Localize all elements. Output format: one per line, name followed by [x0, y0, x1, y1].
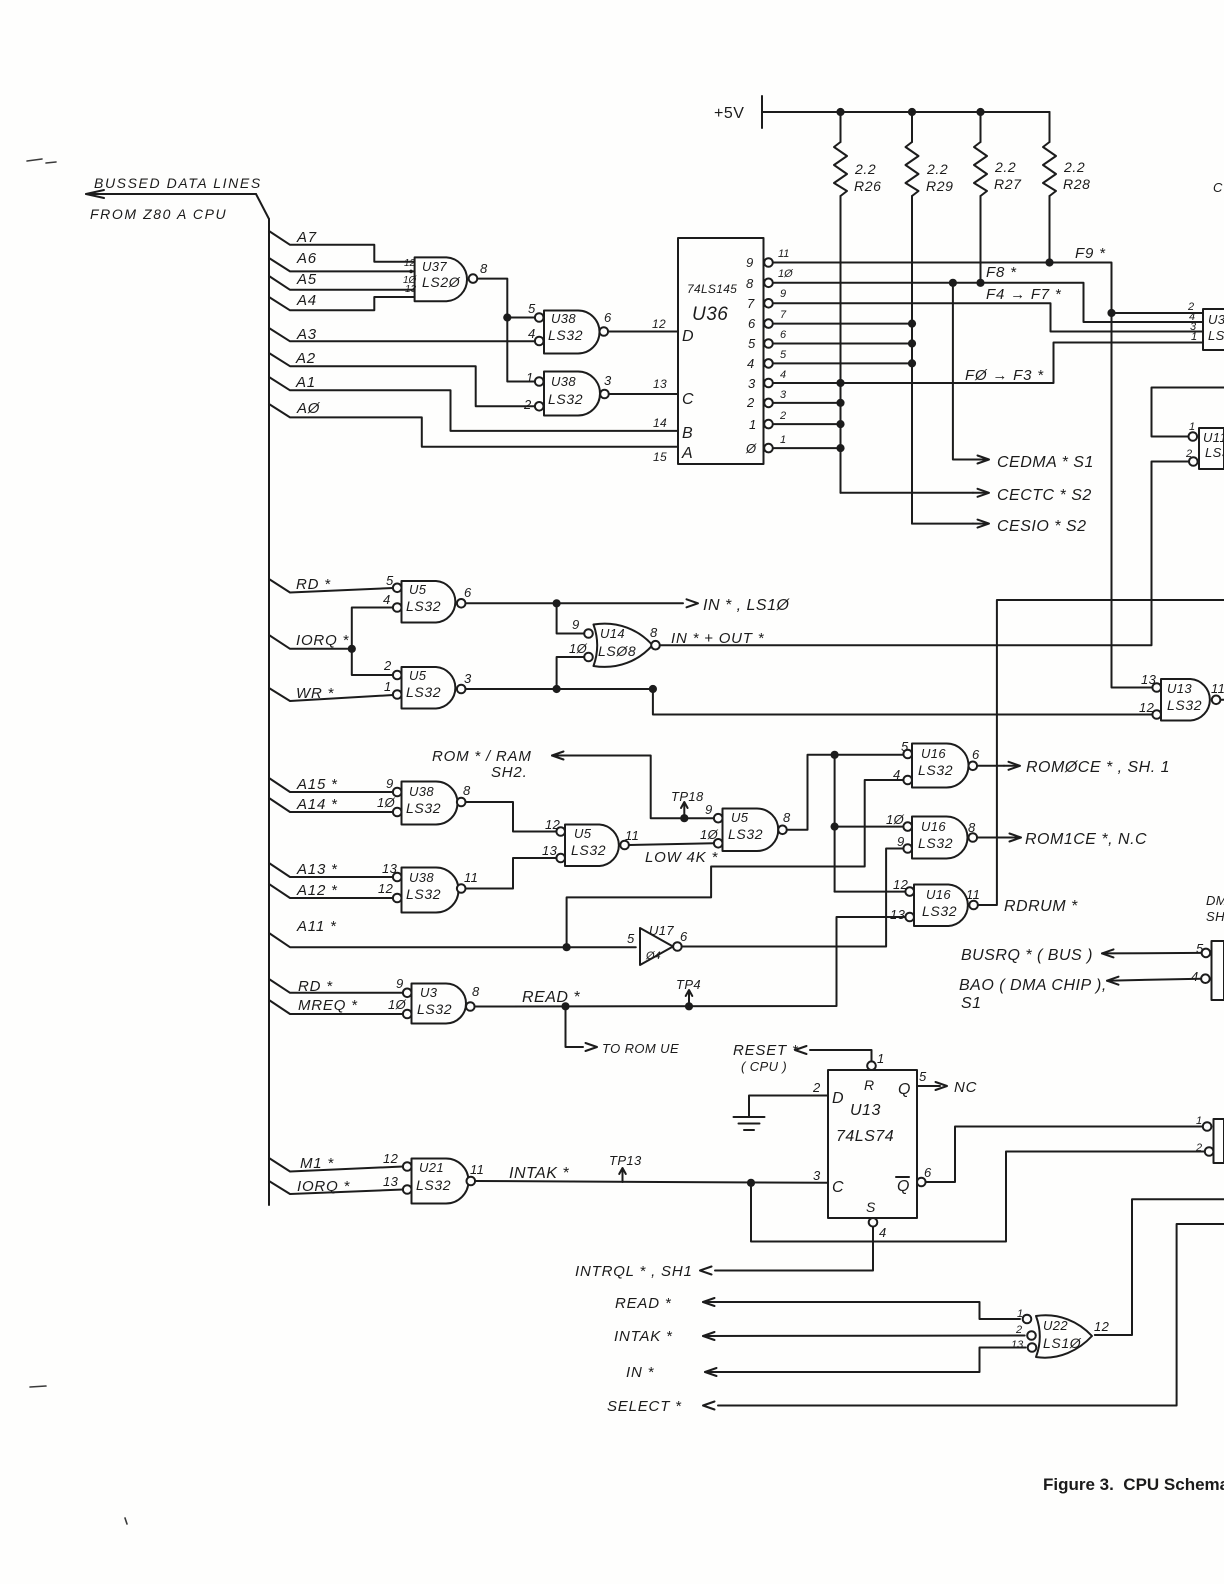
svg-text:74LS74: 74LS74 — [836, 1128, 894, 1145]
pin 5 bubble — [1202, 949, 1211, 958]
node SELECT arrow — [703, 1402, 715, 1410]
svg-text:A7: A7 — [296, 229, 317, 246]
svg-text:6: 6 — [680, 929, 688, 944]
svg-text:ROM * / RAM: ROM * / RAM — [432, 748, 532, 765]
svg-text:INTAK *: INTAK * — [509, 1165, 569, 1182]
node junction on ROM0CE pin5 feed — [831, 751, 839, 759]
wire RD into U5a — [269, 579, 393, 593]
wire CEDMA branch from F8 — [953, 283, 973, 460]
node INTRQL arrow and label — [575, 1263, 712, 1280]
svg-text:R28: R28 — [1063, 176, 1090, 192]
svg-text:5: 5 — [528, 301, 536, 316]
svg-text:D: D — [832, 1090, 844, 1107]
svg-text:8: 8 — [463, 783, 471, 798]
svg-text:13: 13 — [890, 907, 906, 922]
svg-text:7: 7 — [747, 296, 755, 311]
pin 5 bubble — [393, 584, 402, 593]
svg-text:5: 5 — [627, 931, 635, 946]
wire SELECT from right edge — [718, 1224, 1224, 1406]
svg-text:9: 9 — [386, 776, 394, 791]
gate U37 LS20 — [403, 257, 467, 301]
svg-text:LS32: LS32 — [728, 826, 763, 842]
resistor R28 2.2 — [1043, 112, 1090, 196]
svg-text:1: 1 — [780, 434, 786, 446]
wire D pin to ground — [749, 1096, 828, 1118]
gate U13 LS32 (top right) — [1139, 672, 1224, 721]
svg-text:S1: S1 — [961, 995, 982, 1012]
svg-text:11: 11 — [470, 1162, 484, 1177]
wire A12 — [269, 884, 393, 898]
wire F8 from U36 pin 10 — [773, 283, 1203, 322]
pin 2 bubble — [393, 671, 402, 680]
svg-text:LS32: LS32 — [406, 800, 441, 816]
svg-text:1: 1 — [1196, 1115, 1202, 1127]
wire U38 (A15) output to U5mid pin 12 — [466, 802, 557, 832]
wire IN*+OUT* long run — [660, 462, 1189, 646]
svg-text:1: 1 — [526, 370, 534, 385]
svg-text:TP4: TP4 — [676, 977, 701, 992]
svg-text:D: D — [682, 328, 694, 345]
svg-text:8: 8 — [472, 984, 480, 999]
wire CECTC from R26 column — [841, 492, 974, 494]
svg-text:U16: U16 — [921, 819, 946, 834]
svg-text:2: 2 — [779, 410, 786, 422]
svg-text:U3: U3 — [420, 985, 438, 1000]
svg-text:5: 5 — [748, 336, 756, 351]
wire to ROM UE arrow — [566, 1006, 680, 1056]
svg-text:9: 9 — [705, 802, 713, 817]
svg-text:2: 2 — [523, 397, 532, 412]
wire A6 — [269, 258, 415, 271]
wire Qbar to right edge gate pin 1 — [926, 1127, 1203, 1183]
svg-text:R27: R27 — [994, 176, 1022, 192]
node ROM0CE arrow and label — [1004, 759, 1170, 776]
svg-text:A6: A6 — [296, 250, 317, 267]
wire IN*,LS10 from U5a output — [466, 602, 684, 604]
svg-text:6: 6 — [748, 316, 756, 331]
wire U36 pin 6 to R29 column — [773, 343, 912, 345]
pin 4 bubble — [1201, 974, 1210, 983]
svg-text:U16: U16 — [921, 746, 946, 761]
svg-text:LS3: LS3 — [1205, 445, 1224, 460]
svg-text:AØ: AØ — [296, 400, 321, 417]
pin 11 output bubble — [620, 841, 629, 850]
svg-text:2: 2 — [1015, 1324, 1022, 1336]
pin 1 bubble of U22 — [1023, 1315, 1032, 1324]
wire +5V rail — [762, 111, 1050, 113]
svg-text:A: A — [681, 445, 693, 462]
node U37 output branch junction — [503, 313, 511, 321]
svg-text:6: 6 — [972, 747, 980, 762]
svg-text:4: 4 — [383, 592, 391, 607]
pin 11 output bubble — [467, 1177, 476, 1186]
svg-text:BUSRQ * ( BUS ): BUSRQ * ( BUS ) — [961, 947, 1093, 964]
resistor R27 2.2 — [974, 112, 1022, 196]
pin 9 bubble — [714, 814, 723, 823]
svg-text:IN *: IN * — [626, 1364, 655, 1381]
svg-text:ROM1CE *, N.C: ROM1CE *, N.C — [1025, 831, 1147, 848]
pin 9 bubble — [393, 788, 402, 797]
wire WR into U5b — [269, 688, 393, 701]
svg-text:11: 11 — [1211, 681, 1224, 696]
pin 9 bubble — [903, 844, 912, 853]
pin 4 bubble — [903, 776, 912, 785]
svg-text:LS32: LS32 — [416, 1177, 451, 1193]
svg-text:9: 9 — [746, 255, 754, 270]
svg-text:9: 9 — [396, 976, 404, 991]
svg-text:CESIO * S2: CESIO * S2 — [997, 518, 1086, 535]
svg-text:SH: SH — [1206, 909, 1224, 924]
ground — [734, 1117, 765, 1130]
node BUSRQ arrow and label — [961, 947, 1202, 964]
pin 2 bubble (output 1) — [764, 420, 773, 429]
svg-text:U14: U14 — [600, 626, 625, 641]
gate U22 LS10 — [1011, 1308, 1110, 1358]
pin 12 bubble — [403, 1162, 412, 1171]
wire A1 — [269, 377, 678, 431]
gate U38 LS32 (C input) — [523, 370, 612, 416]
pin 2 bubble of U11 — [1189, 457, 1198, 466]
svg-text:U36: U36 — [692, 304, 728, 325]
gate U1x (right edge, cut, Qbar/INTAK) — [1195, 1115, 1224, 1163]
node junction TO ROM UE — [561, 1002, 569, 1010]
pin 10 bubble of U14 — [584, 653, 593, 662]
node CESIO arrow — [973, 518, 1086, 535]
svg-text:A15 *: A15 * — [296, 776, 338, 793]
node INTAK branch junction — [747, 1179, 755, 1187]
pin 1 bubble (output 0) — [764, 444, 773, 453]
svg-text:1Ø: 1Ø — [388, 997, 407, 1012]
wire junction up to U14 pin 10 — [557, 657, 584, 689]
pin 8 output bubble — [466, 1002, 475, 1011]
svg-text:LS32: LS32 — [922, 903, 957, 919]
svg-text:F8 *: F8 * — [986, 264, 1017, 281]
svg-text:4: 4 — [879, 1225, 887, 1240]
svg-text:12: 12 — [404, 258, 416, 269]
svg-text:SH2.: SH2. — [491, 764, 528, 781]
node ROM/RAM label — [432, 748, 532, 781]
wire U37 output to U38 gates — [477, 279, 534, 382]
pin 6 bubble (Qbar) — [917, 1178, 926, 1187]
gate U38 LS32 (D input) — [528, 301, 612, 354]
wire R27 lower lead down to F8 row — [980, 196, 982, 283]
svg-text:IN * , LS1Ø: IN * , LS1Ø — [703, 597, 790, 614]
wire branch to U38a pin 5 — [507, 317, 535, 319]
svg-text:TP13: TP13 — [609, 1153, 642, 1168]
svg-text:1: 1 — [1189, 421, 1195, 433]
pin 6 output bubble — [969, 762, 978, 771]
wire A5 — [269, 276, 415, 290]
svg-text:2: 2 — [383, 658, 392, 673]
wire U11 pin 1 feed from right edge — [1152, 388, 1224, 437]
pin 12 bubble — [905, 887, 914, 896]
svg-text:LS32: LS32 — [548, 327, 583, 343]
svg-text:U3: U3 — [1208, 312, 1224, 327]
pin 5 bubble (output 4) — [764, 359, 773, 368]
svg-text:6: 6 — [464, 585, 472, 600]
node CECTC arrow — [973, 487, 1092, 504]
pin 3 output bubble — [457, 685, 466, 694]
gate U14 LS08 — [569, 617, 658, 667]
svg-text:8: 8 — [783, 810, 791, 825]
wire R26 lower lead down to F0-F3 row — [840, 196, 842, 493]
node junction R26 on +5V rail — [836, 108, 844, 116]
pin 10 bubble — [393, 808, 402, 817]
wire READ output long run — [475, 917, 905, 1007]
svg-text:( CPU ): ( CPU ) — [741, 1059, 787, 1074]
svg-text:4: 4 — [1191, 969, 1199, 984]
gate U3x (right edge, cut off) — [1187, 301, 1224, 350]
svg-text:5: 5 — [780, 349, 787, 361]
wire A15 — [269, 778, 393, 792]
svg-text:U38: U38 — [409, 870, 434, 885]
wire U36 pin 2 to R26 column — [773, 423, 841, 425]
pin 1 bubble — [393, 690, 402, 699]
wire U22 output run to right edge — [1095, 1199, 1224, 1335]
svg-text:LS32: LS32 — [406, 684, 441, 700]
svg-text:3: 3 — [748, 376, 756, 391]
svg-text:Q: Q — [897, 1178, 910, 1195]
svg-text:LS32: LS32 — [417, 1001, 452, 1017]
pin 1 bubble — [535, 377, 544, 386]
svg-text:FROM Z80 A CPU: FROM Z80 A CPU — [90, 206, 227, 222]
node junction pin6 row — [908, 339, 916, 347]
pin 3 bubble (output 2) — [764, 399, 773, 408]
wire IORQ — [269, 635, 352, 649]
gate U5 LS32 (RD+IORQ) — [383, 573, 472, 623]
svg-text:15: 15 — [653, 450, 667, 464]
svg-text:ROMØCE * , SH. 1: ROMØCE * , SH. 1 — [1026, 759, 1170, 776]
wire READ bottom to U22 pin 1 — [703, 1298, 1020, 1319]
svg-text:INTRQL * , SH1: INTRQL * , SH1 — [575, 1263, 693, 1280]
svg-text:6: 6 — [780, 329, 787, 341]
svg-text:TP18: TP18 — [671, 789, 704, 804]
svg-text:LS1Ø: LS1Ø — [1043, 1335, 1082, 1351]
svg-text:BAO ( DMA CHIP ),: BAO ( DMA CHIP ), — [959, 977, 1107, 994]
wire RD to U3 pin 9 — [269, 979, 403, 993]
wire bussed data lines arrow — [86, 190, 256, 198]
pin 9 bubble (output 7) — [764, 299, 773, 308]
svg-text:A12 *: A12 * — [296, 882, 338, 899]
svg-text:12: 12 — [378, 881, 394, 896]
pin 11 output bubble — [1212, 696, 1221, 705]
svg-text:U13: U13 — [1167, 681, 1192, 696]
gate U38 LS32 (A13/A12) — [378, 861, 478, 913]
wire ROM1CE output — [977, 837, 1005, 839]
svg-text:1Ø: 1Ø — [377, 795, 396, 810]
svg-text:4: 4 — [780, 369, 786, 381]
wire F4-F7 from U36 pin 9 — [773, 303, 1203, 331]
svg-text:A2: A2 — [295, 350, 316, 367]
wire junction down to U14 pin 9 — [557, 603, 584, 633]
gate U5 LS32 (TP18) — [700, 802, 791, 851]
svg-text:INTAK *: INTAK * — [614, 1328, 673, 1345]
svg-text:U21: U21 — [419, 1160, 444, 1175]
svg-text:TO ROM UE: TO ROM UE — [602, 1041, 679, 1056]
pin 6 bubble of U17 — [673, 942, 682, 951]
gate U16 LS32 (ROM0CE) — [893, 739, 980, 788]
wire U38 (A13) output to U5mid pin 13 — [466, 858, 557, 889]
node junction pin3 row — [836, 399, 844, 407]
svg-text:LS32: LS32 — [406, 886, 441, 902]
svg-text:CEDMA * S1: CEDMA * S1 — [997, 454, 1094, 471]
wire U5c output node run — [787, 755, 903, 830]
wire WR node long run to U13g pin 12 — [653, 689, 1152, 715]
gate U5 LS32 (IORQ+WR) — [383, 658, 472, 709]
wire F9 from U36 pin 11 — [773, 263, 1152, 688]
svg-text:A14 *: A14 * — [296, 796, 338, 813]
svg-text:8: 8 — [746, 276, 754, 291]
svg-text:5: 5 — [919, 1069, 927, 1084]
wire F9 branch to U3 pin 2 — [1112, 312, 1204, 314]
svg-text:IN * + OUT *: IN * + OUT * — [671, 630, 765, 647]
svg-text:Figure 3. CPU Schema: Figure 3. CPU Schema — [1043, 1475, 1224, 1494]
svg-text:F4 → F7 *: F4 → F7 * — [986, 286, 1062, 303]
gate U3 LS32 (READ) — [388, 976, 480, 1024]
svg-text:8: 8 — [650, 625, 658, 640]
svg-text:12: 12 — [383, 1151, 399, 1166]
svg-text:1Ø: 1Ø — [778, 268, 794, 280]
node R26 junction on F0-F3 row — [836, 379, 844, 387]
pin 12 bubble — [556, 827, 565, 836]
pin 11 output bubble — [457, 884, 466, 893]
pin 4 bubble — [535, 337, 544, 346]
svg-text:C: C — [682, 391, 694, 408]
svg-text:4: 4 — [747, 356, 755, 371]
svg-text:2: 2 — [746, 395, 755, 410]
svg-text:U22: U22 — [1043, 1318, 1068, 1333]
wire U5b output (write strobe) — [466, 688, 653, 690]
svg-text:6: 6 — [924, 1165, 932, 1180]
svg-text:U13: U13 — [850, 1102, 881, 1119]
svg-text:LS32: LS32 — [548, 391, 583, 407]
pin 2 bubble of U22 — [1027, 1331, 1036, 1340]
node junction pin2 row — [836, 420, 844, 428]
node A11 branch junction — [563, 943, 571, 951]
wire A11 branch up to U16a pin 4 — [567, 780, 903, 947]
svg-text:RDRUM *: RDRUM * — [1004, 898, 1078, 915]
node junction R29 on +5V rail — [908, 108, 916, 116]
svg-text:14: 14 — [653, 416, 667, 430]
pin 6 output bubble — [600, 327, 609, 336]
wire M1 to U21 pin 12 — [269, 1158, 403, 1172]
pin 11 bubble (output 9) — [764, 258, 773, 267]
resistor R29 2.2 — [906, 112, 954, 196]
svg-text:U5: U5 — [409, 668, 427, 683]
gate U5 LS32 (mid decode) — [542, 817, 639, 866]
svg-text:LS2Ø: LS2Ø — [422, 274, 461, 290]
svg-text:LSØ8: LSØ8 — [598, 643, 636, 659]
pin 13 bubble — [905, 913, 914, 922]
pin 5 bubble — [535, 313, 544, 322]
node TP4 — [676, 977, 701, 1010]
node junction on pin10 feed — [831, 823, 839, 831]
wire IN bottom to U22 pin 13 — [705, 1348, 1026, 1377]
pin 1 bubble of U11 — [1189, 432, 1198, 441]
wire INTAK from U21 to U13 pin C — [475, 1181, 828, 1183]
svg-text:READ *: READ * — [522, 989, 580, 1006]
pin 10 bubble — [903, 822, 912, 831]
wire R29 lower lead down to CECTC corner — [911, 196, 913, 524]
pin 13 bubble — [556, 854, 565, 863]
svg-text:C: C — [832, 1179, 844, 1196]
pin 8 bubble of U37 — [469, 274, 478, 283]
pin 12 bubble — [393, 894, 402, 903]
pin 6 bubble (output 5) — [764, 339, 773, 348]
svg-text:U5: U5 — [409, 582, 427, 597]
svg-text:LS32: LS32 — [571, 842, 606, 858]
svg-text:CECTC * S2: CECTC * S2 — [997, 487, 1092, 504]
svg-text:LS32: LS32 — [1167, 697, 1202, 713]
svg-text:2.2: 2.2 — [994, 159, 1016, 175]
node R28 junction on F9 — [1045, 258, 1053, 266]
gate U15 (right edge, BUSRQ/BAO cut) — [1191, 941, 1224, 1000]
stray margin marks — [27, 159, 127, 1524]
svg-text:2.2: 2.2 — [926, 161, 948, 177]
wire F0-F3 from U36 pin 4 — [773, 343, 1203, 384]
svg-text:IORQ *: IORQ * — [296, 632, 350, 649]
gate U16 LS32 (ROM1CE) — [886, 812, 976, 859]
node junction pin5 row — [908, 359, 916, 367]
svg-text:BUSSED DATA LINES: BUSSED DATA LINES — [94, 175, 262, 191]
node ROM1CE arrow and label — [1005, 831, 1147, 848]
wire U13g output stub — [1220, 699, 1224, 701]
wire U36 pin 5 to R29 column — [773, 362, 912, 364]
+5V power terminal — [714, 96, 762, 128]
buffer U17 — [627, 923, 688, 965]
svg-text:C: C — [1213, 180, 1223, 195]
pin 8 output bubble — [457, 798, 466, 807]
node junction pin1 row — [836, 444, 844, 452]
gate U38 LS32 (A15/A14) — [377, 776, 471, 825]
wire S pin down to INTRQL — [715, 1227, 873, 1271]
svg-text:Ø4: Ø4 — [645, 950, 661, 962]
svg-text:U38: U38 — [551, 311, 576, 326]
pin 4 bubble — [393, 603, 402, 612]
svg-text:1: 1 — [877, 1051, 885, 1066]
wire to U16b pin 10 — [835, 826, 903, 828]
svg-text:R26: R26 — [854, 178, 881, 194]
svg-text:1Ø: 1Ø — [886, 812, 905, 827]
node IN*,LS10 arrow — [687, 597, 791, 614]
wire U38a output to U36 D — [608, 331, 678, 333]
pin 2 bubble — [535, 402, 544, 411]
wire INTAK branch to right edge gate pin 2 — [751, 1152, 1205, 1242]
svg-text:SELECT *: SELECT * — [607, 1398, 682, 1415]
wire U17 output to U16b pin 9 — [682, 849, 903, 947]
pin 9 bubble of U14 — [584, 629, 593, 638]
wire RESET to R pin — [810, 1050, 872, 1061]
pin 9 bubble — [403, 989, 412, 998]
gate U21 LS32 — [383, 1151, 484, 1204]
wire A4 — [269, 297, 415, 310]
svg-text:A1: A1 — [295, 374, 316, 391]
svg-text:3: 3 — [604, 373, 612, 388]
wire U5mid output to U5c pin 10 — [629, 843, 714, 845]
node junction to U14 pin 9 — [553, 599, 561, 607]
pin 8 output bubble — [969, 833, 978, 842]
wire INTAK bottom to U22 pin 2 — [703, 1332, 1025, 1340]
node F9 branch junction — [1107, 309, 1115, 317]
svg-text:F9 *: F9 * — [1075, 245, 1106, 262]
node junction R27 on +5V rail — [976, 108, 984, 116]
node BAO arrow and label — [959, 977, 1201, 1012]
svg-text:11: 11 — [464, 870, 478, 885]
svg-text:FØ → F3 *: FØ → F3 * — [965, 367, 1044, 384]
pin 1 bubble — [1203, 1122, 1212, 1131]
wire U36 pin 7 to R29 column — [773, 323, 912, 325]
pin 10 bubble (output 8) — [764, 279, 773, 288]
